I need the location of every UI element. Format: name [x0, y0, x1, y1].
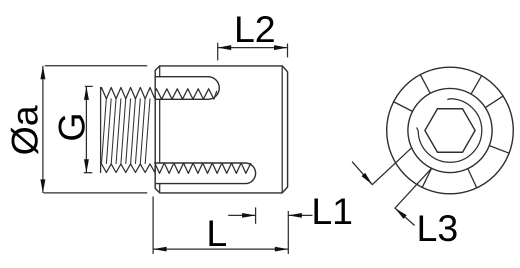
dimension L1 extension lines [256, 207, 289, 254]
dimension L1 dimension line right tail [288, 214, 312, 216]
front view outer circle [387, 67, 514, 194]
svg-text:L3: L3 [417, 207, 459, 249]
hex socket [425, 109, 475, 152]
svg-text:Øa: Øa [4, 105, 46, 155]
male thread left end face [100, 88, 102, 173]
bottom slot outline [155, 163, 255, 184]
body right chamfer edge line [281, 66, 283, 193]
leader callout left of front view [352, 148, 411, 184]
dimension L extension line left [152, 197, 154, 255]
dimension L dimension line [153, 248, 288, 250]
internal thread arc with hook [417, 99, 482, 163]
front view inner circle [408, 88, 492, 172]
dimension L2 extension lines [218, 43, 288, 61]
dimension G dimension line [85, 86, 87, 172]
bottom slot internal thread zigzag [155, 163, 251, 173]
knurl radial lines [394, 75, 510, 188]
body left chamfer edge line [159, 66, 161, 193]
dimension Oa dimension line [42, 66, 44, 193]
top slot internal thread zigzag [155, 89, 217, 99]
body outline with chamfered corners [155, 66, 287, 193]
male thread bottom crest zigzag [101, 164, 156, 173]
svg-text:L2: L2 [234, 8, 276, 50]
dimension L3 leader [395, 168, 432, 225]
svg-text:L1: L1 [311, 190, 353, 232]
top slot outline [155, 77, 219, 100]
svg-text:G: G [51, 112, 93, 141]
svg-text:L: L [206, 212, 227, 254]
male thread top crest zigzag [101, 88, 156, 99]
dimension L2 dimension line [218, 47, 288, 49]
dimension L1 dimension line left tail [228, 214, 255, 216]
male thread flank helix lines [102, 98, 151, 163]
dimension G ticks [84, 86, 93, 172]
dimension Oa extension lines [44, 66, 148, 193]
